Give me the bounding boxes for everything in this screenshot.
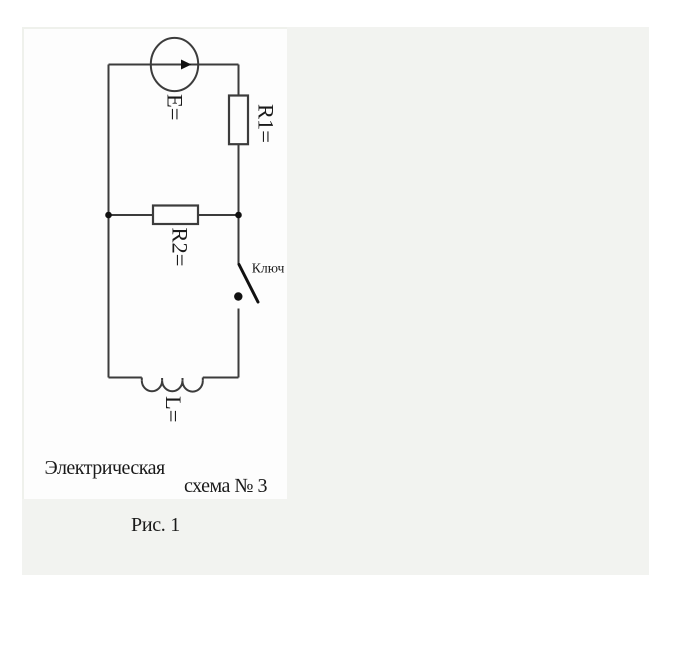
svg-text:R1=: R1= — [253, 104, 278, 143]
svg-text:E=: E= — [163, 94, 188, 120]
svg-text:L=: L= — [161, 396, 186, 422]
svg-text:R2=: R2= — [167, 228, 192, 267]
svg-text:Ключ: Ключ — [252, 261, 285, 276]
